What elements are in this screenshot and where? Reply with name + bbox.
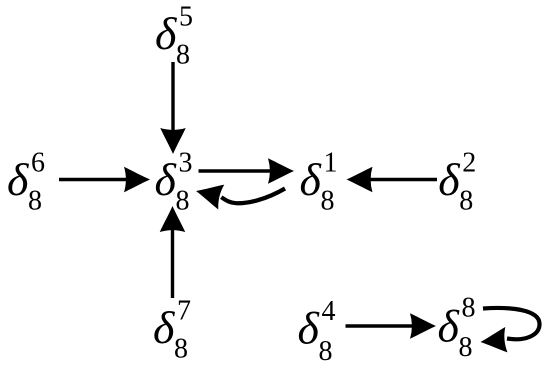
svg-text:δ: δ xyxy=(298,303,320,354)
svg-text:δ: δ xyxy=(155,154,177,205)
curved arrow delta1 -> delta3 xyxy=(193,179,285,210)
node delta_8^5 (top) xyxy=(155,2,193,71)
node delta_8^4 (bottom) xyxy=(298,296,336,367)
svg-text:δ: δ xyxy=(438,301,460,352)
arrow delta3 -> delta1 (right) xyxy=(199,158,295,184)
svg-text:8: 8 xyxy=(176,186,190,217)
arrow delta4 -> delta8 (right) xyxy=(346,313,437,339)
arrow delta7 -> delta3 (up) xyxy=(160,206,186,298)
node delta_8^3 (center) xyxy=(155,148,193,217)
svg-text:δ: δ xyxy=(155,8,177,59)
svg-text:8: 8 xyxy=(174,334,188,365)
svg-text:δ: δ xyxy=(300,154,322,205)
node delta_8^1 xyxy=(300,148,338,217)
svg-text:7: 7 xyxy=(177,296,191,327)
arrow delta6 -> delta3 (right) xyxy=(59,167,150,193)
svg-text:6: 6 xyxy=(31,148,45,179)
node delta_8^7 (bottom center) xyxy=(153,296,191,365)
svg-text:1: 1 xyxy=(324,148,338,179)
self-loop arrow on delta8 xyxy=(479,308,539,355)
svg-text:8: 8 xyxy=(28,186,42,217)
node delta_8^8 (bottom right) xyxy=(438,292,476,363)
svg-text:2: 2 xyxy=(462,148,476,179)
arrow delta2 -> delta1 (left) xyxy=(347,167,438,193)
node delta_8^6 (left) xyxy=(7,148,45,217)
svg-text:3: 3 xyxy=(179,148,193,179)
svg-text:4: 4 xyxy=(322,296,336,327)
svg-text:8: 8 xyxy=(462,292,476,323)
svg-text:8: 8 xyxy=(459,332,473,363)
svg-text:δ: δ xyxy=(7,154,29,205)
svg-text:8: 8 xyxy=(321,186,335,217)
svg-text:8: 8 xyxy=(459,186,473,217)
node delta_8^2 (right) xyxy=(438,148,476,217)
svg-text:δ: δ xyxy=(153,302,175,353)
svg-text:8: 8 xyxy=(319,336,333,367)
svg-text:8: 8 xyxy=(176,40,190,71)
svg-text:5: 5 xyxy=(179,2,193,33)
arrow delta5 -> delta3 (down) xyxy=(160,62,186,154)
svg-text:δ: δ xyxy=(438,154,460,205)
